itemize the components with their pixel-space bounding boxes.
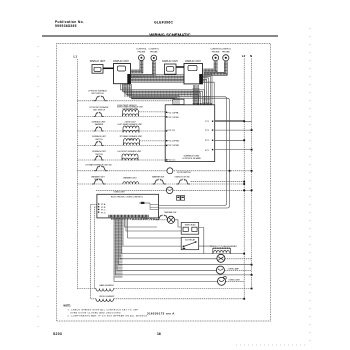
svg-text:2. COMPONENTS MAY. IF DO NOT: 2. COMPONENTS MAY. IF DO NOT APPEAR ON A… xyxy=(68,314,148,317)
svg-text:OVEN DOOR SW: OVEN DOOR SW xyxy=(174,177,189,179)
svg-text:L2: L2 xyxy=(242,54,246,58)
svg-text:S203: S203 xyxy=(53,332,62,336)
svg-text:2100W 120V: 2100W 120V xyxy=(125,121,137,123)
svg-text:SURFACE UNIT: SURFACE UNIT xyxy=(92,135,107,138)
svg-text:3 P1: 3 P1 xyxy=(205,140,210,142)
svg-text:2 P1: 2 P1 xyxy=(205,130,210,132)
svg-text:RT FRONT SURFACE: RT FRONT SURFACE xyxy=(90,106,110,109)
svg-text:316250173 rev A: 316250173 rev A xyxy=(147,312,175,316)
svg-text:DISPLAY UNIT: DISPLAY UNIT xyxy=(90,60,106,63)
svg-text:LH REAR SURFACE UNIT SW: LH REAR SURFACE UNIT SW xyxy=(85,164,111,167)
svg-text:1 P1: 1 P1 xyxy=(205,121,210,123)
svg-text:WARMER UNIT: WARMER UNIT xyxy=(123,176,137,179)
svg-text:NOTE:: NOTE: xyxy=(64,305,72,308)
svg-text:SURFACE UNIT: SURFACE UNIT xyxy=(92,120,107,123)
svg-text:THERMAL SW: THERMAL SW xyxy=(164,211,177,214)
svg-text:PROBE: PROBE xyxy=(212,51,220,53)
svg-text:CONTROL: CONTROL xyxy=(136,49,147,51)
svg-text:1. CHECK WIRING WITH ALL CONT: 1. CHECK WIRING WITH ALL CONTROLS SET TO… xyxy=(68,308,139,311)
svg-text:SURFACE UNIT: SURFACE UNIT xyxy=(183,154,200,157)
svg-text:CONTROL: CONTROL xyxy=(220,49,231,51)
svg-text:OVEN LIGHT: OVEN LIGHT xyxy=(229,279,241,281)
svg-text:P12 4 SPRA: P12 4 SPRA xyxy=(168,139,180,142)
svg-text:P12 1 SPFA: P12 1 SPFA xyxy=(168,111,180,114)
svg-text:OVEN LIGHT: OVEN LIGHT xyxy=(114,191,126,193)
svg-text:TIME DELAY: TIME DELAY xyxy=(184,224,196,227)
svg-text:WARMER: WARMER xyxy=(95,123,104,126)
svg-text:UNIT SWITCH: UNIT SWITCH xyxy=(91,93,104,95)
svg-text:UNIT SWITCH: UNIT SWITCH xyxy=(93,110,106,112)
svg-text:N: N xyxy=(250,54,252,58)
svg-text:P12 3 N: P12 3 N xyxy=(168,130,176,132)
svg-text:P12 2 SPFB: P12 2 SPFB xyxy=(168,117,180,119)
svg-text:OVEN LAMP: OVEN LAMP xyxy=(228,268,240,271)
svg-text:BROIL ELEMENT: BROIL ELEMENT xyxy=(100,296,116,298)
svg-text:CONTROL: CONTROL xyxy=(148,49,159,51)
svg-text:LH FRONT SURFACE UNIT: LH FRONT SURFACE UNIT xyxy=(118,150,143,153)
svg-text:DOOR SWITCH: DOOR SWITCH xyxy=(177,172,191,174)
svg-text:SURFACE UNIT: SURFACE UNIT xyxy=(92,150,107,153)
svg-text:5995368365: 5995368365 xyxy=(55,24,77,28)
svg-text:DISPLAY UNIT: DISPLAY UNIT xyxy=(113,60,129,63)
svg-text:ELECTRONIC OVEN CONTROL: ELECTRONIC OVEN CONTROL xyxy=(111,196,144,198)
svg-text:RT REAR SURFACE UNIT: RT REAR SURFACE UNIT xyxy=(120,135,143,138)
svg-text:P1 C: P1 C xyxy=(101,210,106,212)
svg-text:BAKE ELEMENT: BAKE ELEMENT xyxy=(100,284,115,287)
svg-text:L1: L1 xyxy=(74,55,78,59)
svg-text:DLB RELAY: DLB RELAY xyxy=(185,239,196,242)
svg-text:P12 6 L1: P12 6 L1 xyxy=(168,160,177,162)
svg-text:P1 B: P1 B xyxy=(101,207,106,209)
svg-text:P12 5 SPRB: P12 5 SPRB xyxy=(168,145,180,147)
svg-text:LH FRONT SURFACE: LH FRONT SURFACE xyxy=(88,90,108,93)
svg-text:SWITCH: SWITCH xyxy=(95,139,103,141)
svg-text:16: 16 xyxy=(157,332,161,336)
svg-text:WARMER SW: WARMER SW xyxy=(152,176,164,179)
svg-text:DISPLAY UNIT: DISPLAY UNIT xyxy=(162,60,178,63)
svg-text:PROBE: PROBE xyxy=(222,51,230,53)
svg-text:PROBE: PROBE xyxy=(138,51,146,53)
svg-text:DISPLAY UNIT: DISPLAY UNIT xyxy=(185,60,201,63)
svg-text:WARMER UNIT: WARMER UNIT xyxy=(91,176,105,179)
svg-text:WIRING SCHEMATIC: WIRING SCHEMATIC xyxy=(149,33,190,38)
svg-text:CONTROL BOARD: CONTROL BOARD xyxy=(182,157,201,160)
svg-text:P1 A: P1 A xyxy=(101,203,106,206)
svg-text:OVEN DOOR CLOSED AND UNLOCKED: OVEN DOOR CLOSED AND UNLOCKED xyxy=(70,311,121,314)
svg-text:P1 D: P1 D xyxy=(101,212,106,214)
svg-text:4 P1: 4 P1 xyxy=(205,150,210,152)
svg-text:GLEF396C: GLEF396C xyxy=(154,21,173,25)
svg-text:PROBE: PROBE xyxy=(150,51,158,53)
